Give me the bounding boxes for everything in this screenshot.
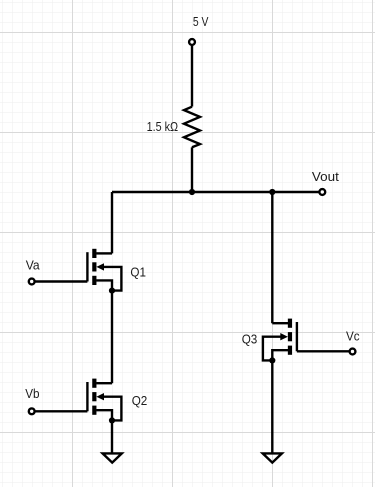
terminal Vout [319,189,325,195]
junction node center [189,189,195,195]
wire VDD to resistor [191,46,193,107]
wire Q2 source to ground [111,420,113,453]
wire Vc input [297,350,349,352]
svg-text:Vc: Vc [346,328,360,343]
terminal Va [29,279,35,285]
svg-text:Vout: Vout [312,169,339,184]
svg-text:Q3: Q3 [242,331,258,346]
wire node to Q1 drain [111,192,113,253]
wire Q1 source to Q2 drain [111,291,113,384]
svg-text:1.5 kΩ: 1.5 kΩ [147,119,179,134]
transistor Q2 [87,379,121,424]
terminal VDD [189,39,195,45]
wire Q3 source to ground [271,360,273,453]
svg-text:Q2: Q2 [132,393,148,408]
wire Va input [35,280,87,282]
ground right [263,453,282,462]
ground left [103,453,122,462]
junction node right [269,189,275,195]
transistor Q3 [263,319,297,364]
wire output node horizontal [112,191,319,193]
svg-text:5 V: 5 V [193,14,209,29]
transistor Q1 [87,249,121,294]
svg-text:Q1: Q1 [130,265,146,280]
wire Vb input [35,410,87,412]
terminal Vb [29,408,35,414]
svg-text:Vb: Vb [25,386,39,401]
svg-text:Va: Va [26,257,41,272]
wire node to Q3 drain [271,192,273,323]
resistor R1 [184,107,200,148]
wire resistor to node [191,147,193,192]
terminal Vc [350,349,356,355]
